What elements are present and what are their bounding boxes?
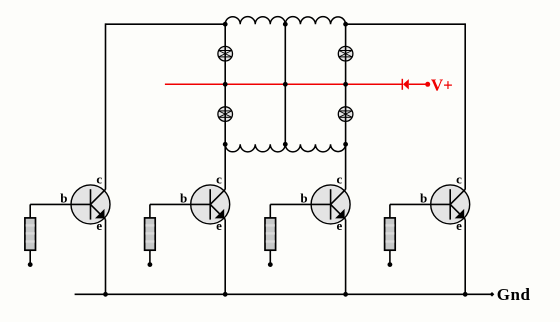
resistor R3 <box>265 218 276 250</box>
wire resistor R3 bottom lead <box>269 250 271 262</box>
node junction bottom coil / center tap <box>283 142 288 147</box>
wire resistor R1 top lead <box>29 204 31 218</box>
wire resistor R2 top lead <box>149 204 151 218</box>
wire base of Q2 to resistor R2 <box>150 203 191 205</box>
node junction ground rail / column B <box>223 292 228 297</box>
node junction bottom coil / column B <box>223 142 228 147</box>
node junction bottom coil / column D <box>343 142 348 147</box>
wire middle column (center tap) <box>284 24 286 144</box>
svg-text:b: b <box>180 191 187 206</box>
wire base of Q3 to resistor R3 <box>270 203 311 205</box>
svg-text:e: e <box>456 218 462 233</box>
node open terminal below R2 <box>148 262 153 267</box>
resistor R2 <box>145 218 156 250</box>
wire column B upper (through lamps) <box>224 24 226 144</box>
node junction top rail / center tap <box>283 22 288 27</box>
svg-text:c: c <box>337 172 343 187</box>
resistor R1 <box>25 218 36 250</box>
wire resistor R4 bottom lead <box>389 250 391 262</box>
node junction ground rail / column D <box>343 292 348 297</box>
svg-text:b: b <box>60 191 67 206</box>
svg-text:c: c <box>456 172 462 187</box>
wire right rail (collector of Q4) <box>464 23 466 189</box>
lamp DS3 <box>338 46 353 61</box>
lamp DS2 <box>218 107 233 122</box>
transistor Q2 <box>191 185 230 224</box>
node open terminal below R1 <box>28 262 33 267</box>
node junction ground rail / column A <box>103 292 108 297</box>
svg-text:e: e <box>96 218 102 233</box>
wire column B lower (emitter of Q2 to ground rail) <box>224 220 226 295</box>
svg-text:V+: V+ <box>431 75 453 94</box>
svg-text:b: b <box>420 191 427 206</box>
node open terminal below R4 <box>388 262 393 267</box>
wire base of Q4 to resistor R4 <box>390 203 431 205</box>
svg-text:Gnd: Gnd <box>497 285 531 304</box>
wire base of Q1 to resistor R1 <box>30 203 71 205</box>
node junction V+ line / column B <box>223 82 228 87</box>
node junction V+ line / center tap <box>283 82 288 87</box>
wire V+ terminal stub (red) <box>409 83 428 85</box>
svg-text:e: e <box>337 218 343 233</box>
wire column D upper (through lamps) <box>345 24 347 144</box>
wire resistor R4 top lead <box>389 204 391 218</box>
connector arrow of V+ terminal <box>403 79 409 89</box>
lamp DS1 <box>218 46 233 61</box>
connector bar of V+ terminal <box>401 79 403 90</box>
node junction top rail / column D <box>343 22 348 27</box>
wire left rail lower (emitter of Q1 to ground rail) <box>105 220 107 295</box>
wire column D middle (to collector of Q3) <box>345 144 347 189</box>
wire resistor R1 bottom lead <box>29 250 31 262</box>
svg-text:e: e <box>216 218 222 233</box>
svg-text:b: b <box>300 191 307 206</box>
wire column B middle (to collector of Q2) <box>224 144 226 189</box>
resistor R4 <box>385 218 396 250</box>
wire column D lower (emitter of Q3 to ground rail) <box>345 220 347 295</box>
node open terminal below R3 <box>268 262 273 267</box>
wire ground rail <box>75 293 492 295</box>
transistor Q1 <box>71 185 110 224</box>
wire V+ supply line (red) <box>165 83 402 85</box>
wire top rail right segment <box>346 23 466 25</box>
inductor L2 <box>285 17 345 25</box>
inductor L1 <box>225 17 285 25</box>
lamp DS4 <box>338 107 353 122</box>
node junction V+ line / column D <box>343 82 348 87</box>
wire left rail (collector of Q1) <box>105 23 107 189</box>
wire right rail lower (emitter of Q4 to ground rail) <box>464 220 466 295</box>
transistor Q4 <box>431 185 470 224</box>
node junction ground rail / column E <box>463 292 468 297</box>
wire resistor R3 top lead <box>269 204 271 218</box>
wire top rail left segment <box>106 23 226 25</box>
inductor L4 <box>285 144 345 152</box>
inductor L3 <box>225 144 285 152</box>
node junction top rail / column B <box>223 22 228 27</box>
transistor Q3 <box>311 185 350 224</box>
node Gnd terminal diamond <box>490 292 495 297</box>
svg-text:c: c <box>96 172 102 187</box>
wire resistor R2 bottom lead <box>149 250 151 262</box>
svg-text:c: c <box>216 172 222 187</box>
node V+ terminal diamond <box>425 82 430 87</box>
